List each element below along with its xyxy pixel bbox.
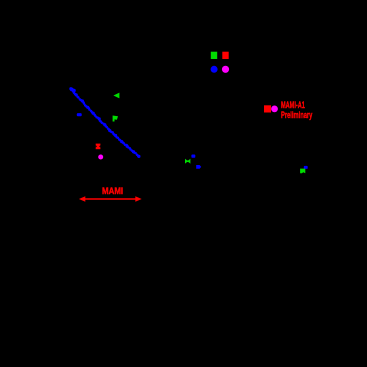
data point blue rect left: [77, 113, 82, 116]
red label MAMI-A1 Preliminary: [281, 101, 305, 110]
curve start blob: [70, 88, 74, 92]
data point magenta circle: [98, 155, 103, 160]
data point green flag lower: [113, 116, 118, 122]
legend blue circle: [211, 66, 218, 73]
blue fit curve (dotted): [69, 87, 140, 158]
red double-headed arrow: [79, 196, 142, 202]
data point green triangle-left upper: [113, 93, 119, 99]
tiny green marker right: [300, 169, 305, 174]
red label MAMI above arrow: [102, 187, 123, 196]
MAMI-A1 magenta circle marker: [271, 106, 278, 113]
tiny blue marker C: [304, 166, 308, 169]
legend magenta circle: [222, 66, 229, 73]
tiny blue marker B: [196, 165, 201, 169]
legend green square: [211, 52, 217, 59]
legend red square: [222, 52, 228, 59]
MAMI-A1 red square marker: [264, 105, 271, 112]
tiny blue marker A: [191, 155, 195, 158]
green bowtie marker: [185, 159, 190, 164]
red label Preliminary: [281, 111, 312, 120]
data point red star: [96, 144, 101, 150]
